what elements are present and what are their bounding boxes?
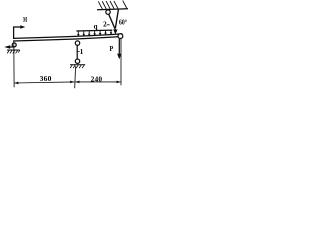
- right extension line: [120, 39, 122, 86]
- moment M bent arrow at left end: [14, 27, 21, 38]
- ceiling line top right: [97, 9, 128, 10]
- svg-text:q: q: [94, 23, 98, 31]
- beam bottom line: [13, 36, 123, 41]
- left support ground line: [7, 49, 20, 51]
- svg-text:360: 360: [40, 74, 52, 83]
- rod 1 upper pin circle: [75, 41, 79, 45]
- rod 1 label leader: [78, 51, 80, 53]
- rod 2 arrowhead at beam: [113, 30, 117, 35]
- rod 2: [109, 14, 116, 30]
- rod 1: [76, 45, 78, 59]
- left support hatching: [7, 50, 20, 53]
- label 2 leader dash: [107, 24, 110, 26]
- ceiling hatching: [98, 1, 127, 10]
- dimension line 240: [75, 81, 120, 83]
- rod 1 ground line: [70, 64, 85, 66]
- left support small left arrow: [9, 46, 13, 48]
- svg-text:M: M: [23, 16, 27, 24]
- left support centerline / extension line: [13, 41, 15, 87]
- left support pin circle: [12, 43, 16, 47]
- svg-text:P: P: [110, 44, 114, 53]
- angle line from ceiling: [115, 10, 118, 28]
- svg-text:2: 2: [103, 20, 107, 28]
- distributed load arrows: [78, 30, 111, 34]
- ceiling pin circle: [106, 10, 110, 14]
- svg-text:60°: 60°: [119, 18, 127, 26]
- dimension line 360: [14, 82, 74, 83]
- svg-text:240: 240: [91, 75, 103, 84]
- rod 1 lower pin circle: [75, 59, 79, 63]
- pin circle at beam right end: [118, 34, 123, 39]
- force P arrow: [118, 39, 120, 54]
- svg-text:1: 1: [80, 48, 84, 56]
- distributed load q top line: [76, 29, 112, 32]
- beam top line: [13, 34, 123, 39]
- rod 1 ground hatching: [70, 65, 84, 68]
- extension line below rod 1: [74, 66, 77, 88]
